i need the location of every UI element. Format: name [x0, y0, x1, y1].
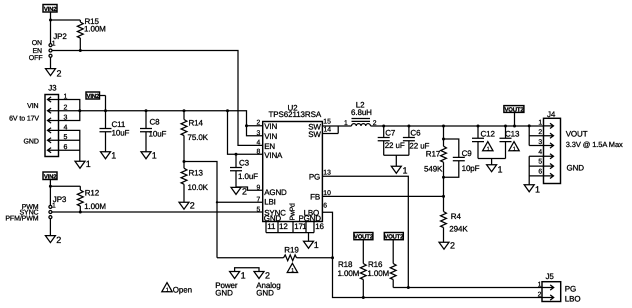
svg-text:2: 2: [242, 187, 247, 197]
svg-text:2: 2: [56, 235, 61, 245]
wire U2 ground stem: [308, 233, 310, 242]
open marker (C12): [483, 142, 493, 153]
svg-text:VIN: VIN: [264, 132, 277, 141]
svg-text:1.00M: 1.00M: [84, 202, 106, 211]
svg-text:R12: R12: [85, 188, 100, 197]
svg-text:Open: Open: [173, 285, 192, 294]
svg-text:75.0K: 75.0K: [188, 133, 209, 142]
wire R12 branch: [50, 185, 80, 187]
U2 right pin numbers: [323, 119, 331, 210]
junction FB node: [442, 195, 445, 198]
junction VOUT2 rail: [513, 125, 516, 128]
U2 bottom pads (pins 11,12,17,1,16): [266, 222, 325, 233]
wire LBO net: U2 pin 6 down to J5: [322, 212, 544, 297]
IC U2 TPS62113RSA: [263, 103, 323, 221]
svg-text:294K: 294K: [449, 224, 468, 233]
wire VIN2 box to JP3 pin 1: [49, 180, 51, 206]
wire R19 left segment: [217, 257, 284, 259]
ground 1 (Power GND): [230, 271, 246, 281]
svg-text:C12: C12: [481, 129, 496, 138]
ground 2 (Analog GND): [254, 271, 270, 281]
svg-text:LBO: LBO: [565, 294, 581, 303]
svg-text:J3: J3: [48, 84, 57, 93]
net label VIN2 (top, at JP2): [43, 5, 57, 13]
svg-text:1: 1: [344, 120, 348, 127]
svg-text:R17: R17: [426, 150, 441, 159]
capacitor C11 (10uF): [100, 96, 130, 153]
ground 2 (R4): [439, 240, 455, 250]
svg-text:1: 1: [111, 150, 116, 160]
ground 2 (C3/AGND): [231, 187, 247, 197]
junction R17/C9 top: [442, 138, 445, 141]
net label VIN2 (at J3): [86, 92, 106, 100]
resistor R14 (75.0K): [181, 111, 209, 162]
svg-text:1: 1: [52, 40, 56, 47]
connector J3: [45, 84, 68, 157]
svg-text:5: 5: [538, 159, 542, 166]
svg-text:C9: C9: [462, 149, 473, 158]
svg-text:12: 12: [279, 222, 288, 231]
junction VINA rail: [226, 109, 229, 112]
wire LBI net: divider tap to U2 pin 7 and down to R19: [184, 162, 263, 258]
capacitor C13 (open): [500, 126, 521, 159]
svg-text:LBI: LBI: [264, 198, 275, 207]
svg-text:8: 8: [257, 149, 261, 156]
svg-text:14: 14: [324, 127, 332, 134]
svg-text:10pF: 10pF: [462, 164, 480, 173]
svg-text:22 uF: 22 uF: [385, 141, 405, 150]
svg-text:2: 2: [265, 271, 270, 281]
wire VIN2 rail: [58, 111, 263, 136]
junction C3 / VINA: [235, 153, 238, 156]
svg-text:VIN2: VIN2: [87, 93, 100, 100]
junction PG corner: [407, 286, 410, 289]
capacitor C8 (10uF): [140, 111, 167, 153]
svg-text:1: 1: [302, 222, 307, 231]
svg-text:2: 2: [450, 240, 455, 250]
legend: open marker meaning: [162, 283, 192, 295]
ground 1 (U2 PGND): [304, 240, 319, 250]
svg-text:10uF: 10uF: [112, 129, 130, 138]
U2 right pin names: [304, 123, 322, 218]
junction R14/R13/LBI: [183, 160, 186, 163]
wire C3 bottom to AGND pin 9: [236, 187, 263, 190]
junction C6 rail: [407, 125, 410, 128]
resistor R19 (open): [284, 246, 300, 261]
svg-text:GND: GND: [567, 164, 585, 173]
svg-text:PwPd: PwPd: [289, 203, 297, 220]
capacitor C12 (open): [472, 126, 496, 159]
net label VOUT2 (R16): [384, 233, 404, 241]
svg-text:4: 4: [538, 149, 542, 156]
resistor R12 (1.00M): [77, 186, 106, 212]
svg-text:TPS62113RSA: TPS62113RSA: [269, 110, 322, 119]
svg-text:EN: EN: [32, 48, 42, 55]
svg-text:1: 1: [314, 240, 319, 250]
svg-text:549K: 549K: [424, 164, 443, 173]
ground 2 (JP2): [46, 69, 62, 79]
junction R15 / EN wire: [79, 49, 82, 52]
junction C12 rail: [477, 125, 480, 128]
wire C7/C6 ground bridge: [384, 155, 409, 166]
wire J4 pins 4-6 tie to ground: [529, 156, 543, 185]
junction VIN2/pin2: [245, 124, 248, 127]
wire power/analog ground tie: [235, 268, 259, 272]
net label VIN2 (at JP3): [43, 172, 57, 180]
resistor R13 (10.0K): [181, 162, 209, 203]
svg-text:1.0uF: 1.0uF: [238, 172, 258, 181]
svg-text:2: 2: [257, 119, 261, 126]
svg-text:3: 3: [257, 130, 261, 137]
svg-text:10uF: 10uF: [149, 129, 167, 138]
ground 1 (C7/C6): [391, 165, 407, 175]
U2 left pin names: [264, 122, 287, 217]
wire SYNC net: JP3 pin2 to U2 pin 5: [52, 211, 263, 213]
svg-text:R19: R19: [284, 246, 299, 255]
svg-text:6.8uH: 6.8uH: [351, 108, 372, 117]
jumper JP2: [49, 32, 67, 57]
wire J4 pins 1-3 tie (VOUT): [529, 126, 543, 146]
svg-text:1: 1: [52, 203, 56, 210]
capacitor C6 (22 uF): [403, 126, 430, 155]
svg-text:13: 13: [323, 170, 331, 177]
svg-text:6: 6: [538, 168, 542, 175]
capacitor C3 (1.0uF): [230, 154, 258, 187]
capacitor C7 (22 uF): [378, 126, 405, 155]
svg-text:6V to 17V: 6V to 17V: [9, 115, 39, 122]
svg-text:VIN: VIN: [264, 122, 277, 131]
junction R17/C9 bottom: [442, 176, 445, 179]
ground 2 (R13): [179, 201, 195, 211]
svg-text:10.0K: 10.0K: [188, 183, 209, 192]
ground 1 (C8): [141, 150, 157, 160]
svg-text:GND: GND: [24, 138, 39, 145]
svg-text:2: 2: [190, 201, 195, 211]
svg-text:1: 1: [403, 165, 408, 175]
svg-text:R16: R16: [368, 260, 383, 269]
junction R17 rail: [442, 125, 445, 128]
connector J4: [538, 110, 560, 184]
svg-text:1.00M: 1.00M: [367, 269, 389, 278]
resistor R17 (549K): [424, 146, 446, 196]
wire JP2 pin3 to ground: [50, 57, 52, 68]
label Power GND: [215, 281, 238, 298]
ground 1 (J4): [524, 184, 540, 194]
svg-text:C13: C13: [505, 129, 520, 138]
svg-text:VOUT2: VOUT2: [504, 106, 524, 113]
resistor R18 (1.00M): [338, 240, 367, 298]
wire C12/C13 ground bridge: [478, 159, 506, 165]
svg-text:VIN2: VIN2: [44, 173, 57, 180]
wire R19 right segment to LBO net: [297, 257, 333, 259]
junction R18/LBO: [362, 296, 365, 299]
junction C8 rail: [145, 109, 148, 112]
svg-text:1: 1: [535, 184, 540, 194]
svg-text:ON: ON: [32, 40, 42, 47]
ground 1 (J3): [75, 159, 91, 169]
svg-text:1: 1: [498, 164, 503, 174]
svg-text:9: 9: [257, 185, 261, 192]
resistor R16 (1.00M): [367, 240, 396, 288]
svg-text:5: 5: [257, 206, 261, 213]
net label VOUT2 (R18): [354, 233, 374, 241]
svg-text:1: 1: [86, 159, 91, 169]
wire VIN2 box to JP2 pin 1: [50, 12, 52, 44]
svg-text:1: 1: [538, 282, 542, 289]
svg-text:11: 11: [267, 222, 276, 231]
junction J3 pin2 rail: [78, 109, 81, 112]
junction C7 rail: [382, 125, 385, 128]
junction at R15 branch: [49, 19, 52, 22]
svg-text:VOUT: VOUT: [566, 130, 588, 139]
junction R12 / SYNC wire: [79, 211, 82, 214]
svg-text:R14: R14: [189, 118, 204, 127]
svg-text:VIN: VIN: [27, 103, 38, 110]
svg-text:C3: C3: [239, 158, 250, 167]
ground 1 (C11): [101, 150, 117, 160]
wire PG net: U2 pin 13 down to J5: [322, 176, 544, 287]
svg-text:AGND: AGND: [264, 188, 287, 197]
U2 left pin numbers: [257, 119, 261, 213]
svg-text:VOUT2: VOUT2: [354, 234, 374, 241]
svg-text:EN: EN: [264, 142, 275, 151]
jumper JP3: [49, 195, 67, 218]
svg-text:2: 2: [57, 69, 62, 79]
svg-text:R4: R4: [451, 212, 462, 221]
junction R19/LBO: [331, 256, 334, 259]
svg-text:15: 15: [323, 119, 331, 126]
svg-text:VIN2: VIN2: [44, 6, 57, 13]
capacitor C9 (10pF): [444, 139, 480, 177]
wire VINA branch from rail: [228, 111, 263, 155]
svg-text:PG: PG: [565, 285, 576, 294]
svg-text:GND: GND: [256, 288, 274, 297]
ground 1 (C12/C13): [487, 164, 503, 174]
junction C13 rail: [504, 125, 507, 128]
svg-text:J4: J4: [547, 110, 556, 119]
svg-text:1: 1: [152, 150, 157, 160]
svg-text:OFF: OFF: [29, 55, 43, 62]
wire R15 branch: [51, 19, 81, 21]
junction C11 rail: [104, 109, 107, 112]
wire SW pins tie: [322, 126, 351, 134]
junction at R12 branch: [49, 185, 52, 188]
svg-text:VOUT2: VOUT2: [384, 234, 404, 241]
wire FB net: U2 pin 10 to divider: [322, 195, 443, 197]
wire JP3 pin3 to ground: [49, 219, 51, 236]
svg-text:R18: R18: [338, 260, 353, 269]
svg-text:C8: C8: [150, 118, 161, 127]
svg-text:1.00M: 1.00M: [338, 269, 360, 278]
svg-text:1: 1: [241, 271, 246, 281]
resistor R15 (1.00M): [77, 17, 106, 51]
svg-text:4: 4: [257, 140, 261, 147]
svg-text:PG: PG: [309, 172, 320, 181]
inductor L2 (6.8uH): [344, 100, 377, 127]
svg-text:FB: FB: [310, 193, 320, 202]
svg-text:1.00M: 1.00M: [84, 24, 106, 33]
wire EN net: JP2 pin2 to U2 pin 4: [52, 51, 263, 146]
svg-text:3.3V @ 1.5A Max: 3.3V @ 1.5A Max: [566, 140, 623, 149]
svg-text:16: 16: [315, 222, 324, 231]
wire J3 pins 4-6 tie to ground: [58, 130, 80, 161]
net label VOUT2 (at J4): [504, 106, 524, 126]
U2 bottom pin names: [264, 203, 321, 223]
label Analog GND: [256, 281, 280, 298]
junction R14 rail: [183, 109, 186, 112]
svg-text:C6: C6: [410, 129, 421, 138]
svg-text:VINA: VINA: [264, 151, 283, 160]
wire VOUT rail: [371, 125, 544, 127]
svg-text:PFM/PWM: PFM/PWM: [5, 214, 38, 222]
wire FB divider top from rail: [443, 126, 445, 146]
svg-text:7: 7: [257, 197, 261, 204]
svg-text:J5: J5: [546, 272, 555, 281]
svg-text:SW: SW: [308, 130, 321, 139]
svg-text:C7: C7: [385, 129, 396, 138]
open marker (R19): [287, 263, 297, 274]
junction J4 pin1 rail: [528, 124, 531, 127]
svg-text:1: 1: [538, 119, 542, 126]
connector J5: [538, 272, 561, 301]
ground 2 (JP3): [45, 235, 61, 245]
resistor R4 (294K): [441, 196, 469, 242]
svg-text:GND: GND: [215, 288, 233, 297]
wire J3 pins 1-3 tie: [58, 100, 80, 121]
svg-text:2: 2: [538, 292, 542, 299]
junction LBI tee: [216, 201, 218, 203]
svg-text:R13: R13: [189, 168, 204, 177]
open marker (C13): [509, 142, 519, 153]
svg-text:6: 6: [323, 202, 327, 209]
